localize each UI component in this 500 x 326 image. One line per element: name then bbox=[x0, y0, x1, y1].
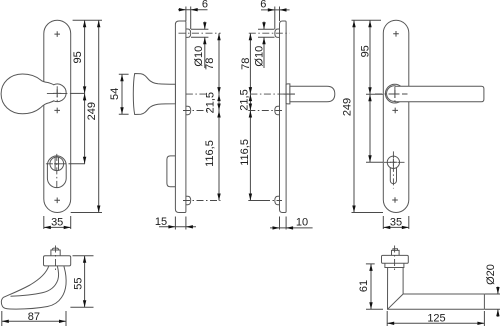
lever miter line F6 bbox=[388, 294, 404, 309]
knob side view F2 bbox=[133, 74, 175, 115]
extension cylinder F1 bbox=[69, 163, 86, 165]
cylinder oval F1 bbox=[47, 156, 66, 188]
screw mid F1 bbox=[54, 108, 60, 114]
cylinder cross F4 bbox=[390, 159, 397, 166]
centerline screw bottom F2 bbox=[183, 200, 221, 202]
backplate F1 bbox=[44, 20, 71, 212]
cylinder profile circle F4 bbox=[387, 156, 399, 168]
dim line d20 F6 bbox=[497, 287, 499, 318]
knob body crease F5 bbox=[11, 266, 59, 296]
centerline screw top F3 bbox=[249, 32, 290, 34]
dim 35 extensions F1 bbox=[44, 216, 71, 229]
svg-text:Ø10: Ø10 bbox=[254, 46, 266, 67]
dim line 21,5 F3 bbox=[249, 94, 251, 110]
spindle centerline F4 bbox=[375, 93, 408, 95]
screw top F4 bbox=[393, 31, 399, 37]
dim 54 extensions bbox=[119, 74, 129, 114]
screw bottom F4 bbox=[392, 197, 398, 203]
extension plate bottom F4 bbox=[352, 212, 384, 214]
dim 6 extensions F2 bbox=[186, 7, 191, 30]
screw mid F4 bbox=[392, 108, 398, 114]
lever spigot F6 bbox=[392, 250, 400, 255]
cylinder profile slot F4 bbox=[390, 167, 396, 183]
dim line 78 F3 bbox=[249, 33, 251, 94]
spindle tick F3 bbox=[284, 93, 295, 95]
svg-text:95: 95 bbox=[359, 45, 371, 57]
svg-text:Ø10: Ø10 bbox=[193, 46, 205, 67]
dim line 6 F2 bbox=[178, 9, 208, 11]
svg-text:61: 61 bbox=[358, 280, 370, 292]
screw bottom F1 bbox=[54, 198, 60, 204]
svg-text:10: 10 bbox=[296, 217, 308, 229]
centerline spindle F3 bbox=[250, 93, 295, 95]
screw boss mid F2 bbox=[186, 106, 191, 114]
screw boss top F3 bbox=[275, 29, 280, 37]
dim 87 extensions F5 bbox=[2, 311, 66, 326]
backplate side F3 bbox=[280, 21, 287, 213]
dim line 35 F1 bbox=[44, 226, 71, 228]
dim d20 extensions F6 bbox=[485, 294, 500, 309]
dim line 54 bbox=[121, 74, 123, 114]
rosette inner F4 bbox=[387, 86, 396, 102]
lever rosette step F6 bbox=[385, 263, 404, 267]
cylinder circle F1 bbox=[50, 157, 64, 171]
extension spindle F1 bbox=[71, 92, 85, 94]
svg-text:35: 35 bbox=[51, 216, 63, 228]
centerline screw mid F2 bbox=[183, 110, 208, 112]
svg-text:78: 78 bbox=[240, 58, 252, 70]
lever grip F4 bbox=[395, 86, 484, 102]
lever spigot nub F6 bbox=[393, 249, 398, 251]
dim line 55 F5 bbox=[84, 256, 86, 307]
dim line 95 F4 bbox=[369, 20, 371, 94]
svg-text:6: 6 bbox=[202, 0, 208, 11]
dim line 10 F3 bbox=[270, 227, 313, 229]
svg-text:15: 15 bbox=[155, 216, 167, 228]
dim line 116,5 F3 bbox=[249, 111, 251, 201]
svg-text:54: 54 bbox=[109, 88, 121, 100]
dim line 249 F1 bbox=[98, 20, 100, 212]
extension spindle F4 bbox=[366, 93, 383, 95]
svg-text:87: 87 bbox=[28, 311, 40, 323]
dim line d10 F3 bbox=[263, 22, 265, 69]
spindle cross F4 bbox=[391, 90, 399, 98]
lever rosette F6 bbox=[382, 255, 409, 263]
screw boss top F2 bbox=[186, 29, 191, 37]
knob spigot dome F5 bbox=[52, 248, 58, 250]
svg-text:21,5: 21,5 bbox=[239, 89, 251, 110]
backplate side F2 bbox=[175, 21, 186, 213]
centerline screw mid F3 bbox=[248, 110, 282, 112]
lever grip fill F4 bbox=[395, 86, 484, 102]
extension cylinder F4 bbox=[366, 161, 383, 163]
knob front view F1 bbox=[1, 74, 66, 114]
cylinder side F2 bbox=[167, 156, 176, 187]
dim line 92 unlabeled F1 bbox=[84, 93, 86, 163]
dim 35 extensions F4 bbox=[383, 216, 409, 229]
svg-text:249: 249 bbox=[341, 98, 353, 116]
centerline spindle F2 bbox=[186, 93, 208, 95]
knob spigot F5 bbox=[51, 250, 60, 256]
lever grip F3 bbox=[290, 86, 335, 102]
screw top F1 bbox=[54, 31, 60, 37]
dim top extension line F4 bbox=[352, 19, 382, 21]
dim 15 extensions F2 bbox=[175, 217, 186, 230]
dim line 249 F4 bbox=[353, 20, 355, 212]
hole edge extensions F3 bbox=[258, 29, 275, 37]
svg-text:21,5: 21,5 bbox=[204, 92, 216, 113]
dim 6 extensions F3 bbox=[275, 7, 280, 30]
rosette F4 bbox=[385, 84, 404, 103]
spindle centerline F1 bbox=[47, 92, 71, 94]
screw boss mid F3 bbox=[275, 106, 280, 114]
dim top extension line F1 bbox=[73, 19, 102, 21]
spindle cross F1 bbox=[53, 89, 61, 97]
svg-text:249: 249 bbox=[86, 102, 98, 120]
dim line 6 F3 bbox=[261, 9, 290, 11]
dim line 125 F6 bbox=[387, 322, 484, 324]
dim line 78 F2 bbox=[218, 33, 220, 94]
svg-text:78: 78 bbox=[204, 58, 216, 70]
dim line 92 unlabeled F4 bbox=[369, 94, 371, 162]
lever neck and grip F6 bbox=[388, 268, 485, 310]
dim 125 extensions F6 bbox=[387, 311, 484, 326]
dim line 15 F2 bbox=[159, 226, 196, 228]
cylinder centerline F4 bbox=[384, 161, 405, 163]
centerline screw bottom F3 bbox=[248, 200, 263, 202]
lever collar F3 bbox=[286, 84, 290, 104]
knob bearing block F5 bbox=[44, 256, 71, 266]
svg-text:125: 125 bbox=[427, 312, 445, 324]
knob body F5 bbox=[1, 266, 66, 309]
svg-text:Ø20: Ø20 bbox=[485, 264, 497, 285]
dim line 35 F4 bbox=[383, 226, 409, 228]
svg-text:116,5: 116,5 bbox=[204, 140, 216, 167]
knob centerline F5 bbox=[55, 246, 57, 271]
dim line 61 F6 bbox=[370, 264, 372, 309]
extension plate bottom F1 bbox=[71, 212, 102, 214]
svg-text:55: 55 bbox=[72, 277, 84, 289]
dim line 95 F1 bbox=[84, 20, 86, 93]
cylinder centerline F1 bbox=[46, 163, 69, 165]
dim 10 extensions F3 bbox=[280, 217, 287, 230]
dim line 116,5 F2 bbox=[218, 111, 220, 201]
screw boss bottom F3 bbox=[275, 196, 280, 204]
svg-text:6: 6 bbox=[260, 0, 266, 11]
cylinder keyway F1 bbox=[55, 157, 58, 170]
lever centerline F6 bbox=[394, 246, 396, 271]
dim 61 extensions F6 bbox=[366, 264, 383, 309]
screw boss bottom F2 bbox=[186, 196, 191, 204]
svg-text:95: 95 bbox=[72, 51, 84, 63]
dim line 21,5 F2 bbox=[218, 94, 220, 110]
svg-text:35: 35 bbox=[390, 216, 402, 228]
centerline screw top F2 bbox=[179, 32, 221, 34]
dim line 87 F5 bbox=[2, 320, 66, 322]
backplate F4 bbox=[383, 20, 409, 212]
dim line d10 F2 bbox=[204, 22, 206, 69]
hole edge extensions F2 bbox=[191, 29, 208, 37]
svg-text:116,5: 116,5 bbox=[239, 139, 251, 166]
dim 55 extensions F5 bbox=[70, 256, 93, 307]
